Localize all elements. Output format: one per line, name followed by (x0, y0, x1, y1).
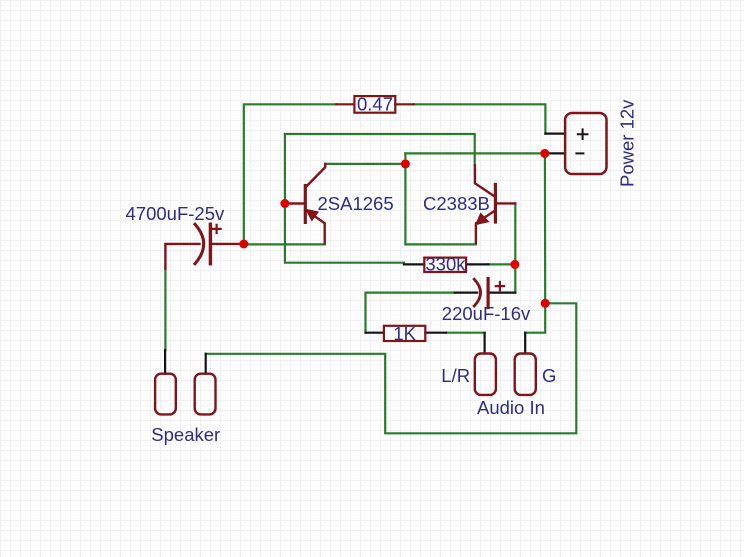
connector G audio ground (515, 333, 536, 395)
svg-text:Speaker: Speaker (151, 424, 220, 445)
junction node power minus (540, 149, 549, 158)
connector speaker pin 2 (195, 354, 216, 415)
junction node C (401, 159, 410, 168)
junction node Q1 base (280, 199, 289, 208)
junction node 330k right (510, 260, 519, 269)
wire 330k right lead to node (488, 263, 515, 265)
svg-text:1K: 1K (393, 323, 416, 344)
wire 1K right to connector L/R (446, 332, 485, 334)
transistor Q1 2SA1265 (PNP) (286, 164, 394, 244)
transistor Q2 C2383B (NPN) (423, 165, 515, 243)
wire power minus rail horizontal (405, 152, 544, 154)
svg-text:C2383B: C2383B (423, 193, 490, 214)
label L/R (441, 365, 470, 386)
connector speaker pin 1 (155, 350, 176, 414)
wire net A right: resistor 0.47 to power plus (414, 104, 545, 133)
wire output node to 2SA1265 emitter (244, 243, 325, 245)
svg-text:Audio In: Audio In (477, 397, 545, 418)
svg-text:2SA1265: 2SA1265 (318, 193, 394, 214)
power supply BT1 12v (545, 99, 638, 187)
svg-text:0.47: 0.47 (357, 94, 393, 115)
resistor R2 330k (404, 253, 488, 274)
label Audio In (477, 397, 545, 418)
wires and components injected below (126, 94, 638, 446)
wire 220uF minus to 1K (366, 293, 455, 333)
junction node output (239, 240, 248, 249)
resistor R1 0.47 (336, 94, 414, 115)
connector L/R audio in (475, 333, 496, 395)
label G (542, 365, 556, 386)
wire net B top: C2383B collector to 2SA1265 base rail (285, 134, 475, 166)
svg-text:4700uF-25v: 4700uF-25v (126, 203, 225, 224)
label Speaker (151, 424, 220, 445)
wire power minus vertical rail (544, 153, 546, 303)
wire 4700uF minus down to speaker (164, 268, 166, 351)
wire node C down to C2383B emitter (405, 164, 476, 245)
wire net A left: resistor 0.47 to output node (244, 104, 336, 244)
wire net B left vertical to 330k (285, 134, 404, 263)
svg-text:220uF-16v: 220uF-16v (442, 303, 531, 324)
wire C2383B base down through 330k node to 220uF plus (514, 203, 516, 292)
junction node ground rail (541, 299, 550, 308)
wire minus rail to connector G (525, 303, 545, 332)
svg-text:G: G (542, 365, 556, 386)
capacitor C2 220uF-16v (442, 279, 531, 324)
svg-text:Power 12v: Power 12v (616, 99, 637, 187)
wire minus rail to speaker return loop (206, 303, 577, 433)
svg-text:330k: 330k (425, 253, 466, 274)
wire stub node C (404, 153, 406, 164)
svg-text:L/R: L/R (441, 365, 470, 386)
capacitor C1 4700uF-25v (126, 203, 242, 269)
resistor R3 1K (366, 323, 446, 344)
wire 2SA1265 collector to node C (325, 163, 405, 165)
